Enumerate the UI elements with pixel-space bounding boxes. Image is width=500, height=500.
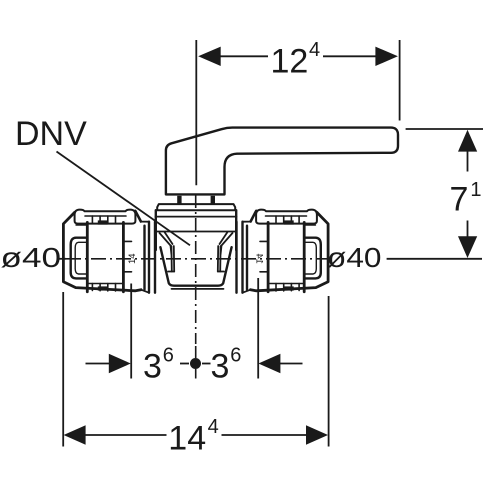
svg-text:DNV: DNV bbox=[15, 115, 87, 153]
svg-text:6: 6 bbox=[163, 344, 174, 366]
svg-text:6: 6 bbox=[230, 344, 241, 366]
svg-text:14: 14 bbox=[168, 419, 206, 457]
svg-text:1: 1 bbox=[470, 179, 481, 201]
svg-text:7: 7 bbox=[450, 181, 469, 219]
svg-text:ø40: ø40 bbox=[1, 242, 62, 273]
svg-text:14: 14 bbox=[127, 253, 138, 264]
svg-text:12: 12 bbox=[271, 42, 309, 80]
svg-text:3: 3 bbox=[143, 348, 162, 386]
svg-text:ø40: ø40 bbox=[327, 242, 382, 273]
svg-text:3: 3 bbox=[211, 348, 230, 386]
svg-text:4: 4 bbox=[309, 39, 320, 61]
svg-text:4: 4 bbox=[208, 416, 219, 438]
